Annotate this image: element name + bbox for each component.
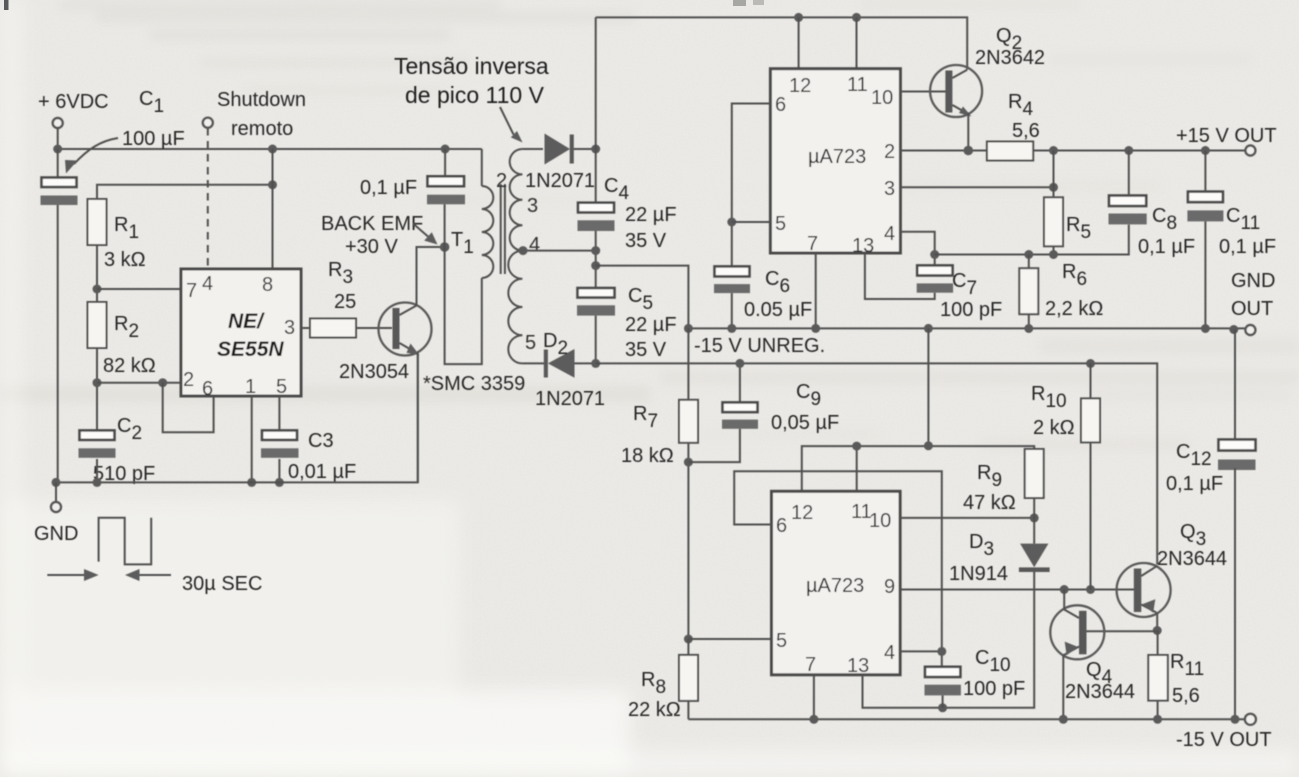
svg-text:2N3644: 2N3644	[1065, 681, 1135, 703]
svg-text:0,1 µF: 0,1 µF	[1166, 473, 1223, 495]
wire D1 to junction	[574, 148, 596, 150]
wire 0.1uF top lead	[444, 149, 446, 176]
svg-text:5,6: 5,6	[1012, 120, 1040, 142]
svg-text:-15 V OUT: -15 V OUT	[1176, 729, 1272, 751]
svg-text:2N3644: 2N3644	[1157, 548, 1227, 570]
diode D1 1N2071	[545, 134, 574, 165]
node junction pin7/rail	[809, 715, 818, 724]
op-amp U3 uA723 box	[772, 491, 901, 675]
node junction rail/0.1uF	[441, 145, 450, 154]
capacitor C11	[1187, 192, 1223, 222]
node junction pin11/rail	[852, 442, 861, 451]
svg-text:5: 5	[525, 332, 536, 354]
wire C9 bottom lead	[688, 429, 740, 462]
svg-text:82 kΩ: 82 kΩ	[103, 355, 156, 377]
transformer T1 secondary upper winding	[510, 149, 523, 251]
resistor R6	[1019, 255, 1038, 329]
node junction C12/rail	[1231, 715, 1240, 724]
wire IC2 pin12	[798, 17, 800, 68]
transistor Q4 2N3644	[1050, 605, 1104, 659]
node junction C11/GND rail	[1201, 324, 1210, 333]
svg-text:0,05 µF: 0,05 µF	[771, 412, 839, 434]
svg-text:4: 4	[884, 642, 895, 664]
node GND OUT terminal	[1245, 325, 1255, 335]
resistor R10	[1081, 398, 1100, 442]
svg-text:7: 7	[805, 654, 816, 676]
node junction C12/GND rail	[1229, 325, 1238, 334]
wire IC3 pin11	[856, 446, 858, 491]
node junction Q4 collector	[1060, 585, 1069, 594]
node junction C1/GND	[52, 478, 61, 487]
svg-text:2N3054: 2N3054	[339, 361, 409, 383]
transistor Q1 2N3054	[379, 303, 432, 356]
svg-text:Shutdown: Shutdown	[217, 89, 306, 111]
wire R2 to C2	[96, 348, 98, 430]
transformer T1 secondary lower winding	[508, 251, 522, 364]
node junction collector/back-emf	[440, 242, 450, 252]
wire C2 bottom	[96, 459, 98, 482]
op-amp U1 NE/SE55N box	[181, 269, 301, 396]
wire secondary pin5 to D2	[522, 362, 544, 364]
svg-text:7: 7	[186, 280, 197, 302]
wire C12 leads	[1234, 330, 1236, 720]
wire D2 to junction	[575, 362, 596, 364]
svg-text:2: 2	[884, 141, 895, 163]
capacitor C12	[1218, 440, 1256, 471]
capacitor C4	[578, 203, 615, 231]
svg-text:6: 6	[202, 378, 213, 400]
resistor R2	[88, 302, 107, 348]
wire C11 leads	[1204, 151, 1206, 329]
node junction gnd/IC3 riser	[924, 324, 933, 333]
svg-text:3: 3	[884, 178, 895, 200]
wire IC2 pin3	[901, 186, 1054, 188]
wire R8 leads	[687, 639, 689, 719]
node junction tap4 winding	[519, 246, 528, 255]
wire arrow left of pulse	[47, 574, 88, 576]
wire IC2 pin5	[732, 221, 771, 223]
wire R7 bottom to pin5 riser	[687, 443, 689, 639]
node junction D2/C5/-15unreg	[591, 359, 600, 368]
svg-text:GND: GND	[1231, 270, 1275, 292]
wire C6 bottom	[731, 293, 733, 328]
wire IC3 pin10	[900, 517, 1034, 519]
svg-text:GND: GND	[34, 523, 78, 545]
node junction pin5	[684, 635, 693, 644]
wire secondary pin2 to D1	[522, 148, 543, 150]
node junction +6V/C1	[53, 145, 62, 154]
wire C1 top lead	[57, 149, 59, 177]
waveform pulse	[99, 518, 152, 565]
svg-text:2 kΩ: 2 kΩ	[1033, 417, 1075, 439]
capacitor C9	[722, 402, 758, 428]
wire R11 bottom lead	[1157, 701, 1159, 720]
transformer core lines	[501, 184, 505, 274]
svg-text:3: 3	[527, 195, 538, 217]
resistor R4	[987, 142, 1033, 161]
wire tap4	[522, 250, 595, 252]
svg-text:22 µF: 22 µF	[625, 204, 677, 226]
wire R5 top lead	[1053, 151, 1055, 198]
svg-text:1N2071: 1N2071	[525, 170, 595, 192]
capacitor C5	[577, 288, 615, 316]
svg-text:0.05 µF: 0.05 µF	[744, 299, 812, 321]
wire -15V bottom rail	[688, 718, 1245, 720]
wire R3 to Q1 base	[356, 327, 392, 329]
svg-text:35 V: 35 V	[625, 339, 667, 361]
wire top-left +6V rail	[58, 148, 482, 150]
wire IC2 pin4	[901, 232, 935, 266]
wire IC2 pin7 down	[815, 253, 817, 328]
wire back-emf arrow	[413, 224, 428, 237]
node junction pin4/C7/R6 line	[930, 250, 939, 259]
node +15V OUT terminal	[1245, 146, 1255, 156]
node junction gnd-feed	[591, 261, 600, 270]
wire IC2 pin6 loop	[732, 104, 771, 267]
capacitor C1	[41, 178, 78, 206]
wire terminal stub	[57, 128, 59, 149]
svg-text:de pico 110 V: de pico 110 V	[405, 82, 545, 108]
wire IC2 pin2	[901, 150, 987, 152]
wire pin2	[97, 382, 181, 384]
svg-text:µA723: µA723	[806, 575, 864, 597]
wire shutdown dashed	[207, 128, 209, 269]
wire pin1 down	[251, 396, 253, 482]
wire R1-R2	[96, 245, 98, 302]
wire R11 top lead	[1157, 631, 1159, 656]
wire Q1 emitter down	[417, 353, 419, 483]
op-amp U2 uA723 box	[770, 69, 900, 253]
wire leader arrow to C1	[74, 138, 118, 164]
wire IC3 pin4	[900, 650, 942, 652]
wire top rail riser	[595, 17, 597, 149]
svg-text:12: 12	[791, 502, 813, 524]
svg-text:Tensão inversa: Tensão inversa	[394, 53, 549, 79]
svg-text:3: 3	[284, 317, 295, 339]
svg-text:5: 5	[776, 630, 787, 652]
wire Q4 collector up	[1063, 590, 1065, 610]
wire pin5 down to C3	[278, 396, 280, 430]
svg-text:2N3642: 2N3642	[975, 47, 1045, 69]
transformer T1 primary winding	[482, 149, 494, 278]
wire C8 top lead	[1128, 151, 1130, 196]
node junction C2/GND	[93, 478, 102, 487]
svg-text:10: 10	[871, 87, 893, 109]
wire second rail to R1	[97, 185, 273, 199]
svg-text:OUT: OUT	[1231, 298, 1273, 320]
wire IC2 pin11	[856, 17, 858, 68]
svg-text:+15 V OUT: +15 V OUT	[1176, 125, 1277, 147]
svg-text:10: 10	[869, 510, 891, 532]
node junction Q4 emitter/rail	[1059, 715, 1068, 724]
svg-text:12: 12	[789, 75, 811, 97]
wire IC3 pin6 loop	[734, 471, 942, 667]
resistor R8	[679, 655, 698, 701]
node junction R10 top	[1086, 359, 1095, 368]
wire leader arrow to D1	[500, 107, 514, 135]
transistor Q2 2N3642	[930, 65, 982, 117]
faint scan smudges	[0, 0, 1299, 451]
svg-text:0,1 µF: 0,1 µF	[1138, 236, 1195, 258]
svg-text:11: 11	[847, 74, 868, 96]
capacitor C10	[925, 667, 961, 696]
transistor Q3 2N3644	[1117, 563, 1171, 617]
wire R10 bottom lead	[1090, 442, 1092, 589]
wire GND rail	[56, 354, 418, 482]
wire IC3 pin9	[900, 589, 1134, 591]
wire IC3 pin7 down	[813, 675, 815, 720]
svg-text:1N914: 1N914	[949, 563, 1008, 585]
node junction Q3/R11/Q4 base	[1153, 626, 1162, 635]
wire GND terminal stub	[55, 482, 57, 502]
wire R10 top lead	[1090, 364, 1092, 399]
svg-text:22 kΩ: 22 kΩ	[628, 699, 681, 721]
svg-text:remoto: remoto	[231, 118, 293, 140]
node junction R2/pin2	[93, 378, 102, 387]
wire IC3 pin5	[688, 638, 771, 640]
svg-text:5: 5	[775, 213, 786, 235]
node +6VDC terminal	[53, 118, 63, 128]
node junction pin7/GND rail	[811, 324, 820, 333]
node junction R6 top	[1024, 250, 1033, 259]
wire C3 bottom	[278, 459, 280, 482]
svg-text:7: 7	[807, 233, 818, 255]
node junction pin2/Q2	[964, 146, 974, 156]
node junction R4/R5	[1049, 146, 1058, 155]
node junction C3/GND	[275, 478, 284, 487]
node junction R6/GND rail	[1024, 324, 1033, 333]
wire Q1 collector up	[417, 247, 445, 306]
capacitor C3	[261, 430, 299, 457]
wire C4 bottom to C5 top	[595, 231, 597, 288]
node junction R1/R2/pin7	[93, 285, 102, 294]
wire pin6 loop	[163, 383, 214, 433]
wire D3 bottom to pin13 line	[863, 572, 1035, 708]
resistor R3	[310, 319, 356, 338]
svg-text:30µ SEC: 30µ SEC	[182, 573, 262, 595]
svg-text:1N2071: 1N2071	[535, 388, 605, 410]
svg-text:4: 4	[202, 273, 213, 295]
node GND terminal	[51, 502, 61, 512]
svg-text:13: 13	[847, 655, 869, 677]
node junction pin6 loop on pin2 wire	[158, 378, 167, 387]
wire Q3 emitter down	[1156, 613, 1158, 631]
svg-text:0,01 µF: 0,01 µF	[288, 461, 356, 483]
diode D2 1N2071	[544, 349, 575, 378]
svg-text:4: 4	[884, 223, 895, 245]
svg-text:C3: C3	[308, 430, 334, 452]
node junction pin5/pin6	[727, 218, 736, 227]
svg-text:1: 1	[245, 376, 256, 398]
svg-text:+ 6VDC: + 6VDC	[38, 91, 109, 113]
svg-text:2: 2	[183, 369, 194, 391]
capacitor C6	[714, 266, 750, 293]
node junction R10 bottom	[1086, 585, 1095, 594]
svg-text:4: 4	[529, 234, 540, 256]
wire R7 top lead	[687, 328, 689, 399]
wire Q4 base	[1086, 630, 1157, 632]
node junction rail/C8	[1124, 146, 1133, 155]
resistor R1	[88, 199, 107, 245]
node junction pin4/pin6/C10	[937, 647, 946, 656]
svg-text:18 kΩ: 18 kΩ	[621, 445, 674, 467]
node junction rail/C11	[1201, 146, 1210, 155]
node junction tap4/C4	[591, 246, 600, 255]
node junction pin1/GND	[247, 478, 256, 487]
wire C4 top lead	[595, 149, 597, 203]
resistor R7	[679, 400, 698, 443]
svg-text:5: 5	[276, 376, 287, 398]
node junction R7/C9	[684, 458, 693, 467]
svg-text:13: 13	[852, 235, 874, 257]
node junction riser/rail	[924, 441, 933, 450]
resistor R11	[1148, 655, 1168, 701]
wire IC3 pins 12/11 rail riser	[927, 328, 929, 445]
svg-text:SE55N: SE55N	[217, 338, 284, 361]
svg-text:100 µF: 100 µF	[122, 128, 185, 150]
node junction R11/rail	[1153, 715, 1162, 724]
svg-text:-15 V UNREG.: -15 V UNREG.	[694, 335, 825, 357]
svg-text:0,1 µF: 0,1 µF	[360, 177, 417, 199]
wire C10 bottom lead	[942, 695, 944, 707]
node junction second rail/pin8	[268, 180, 277, 189]
node junction pin11/top rail	[852, 13, 861, 22]
node -15V OUT terminal	[1245, 714, 1256, 725]
node junction pin3/R5	[1049, 183, 1058, 192]
wire Q4 emitter down	[1062, 656, 1064, 720]
wire top rail	[596, 17, 968, 69]
wire pin3 to R3	[301, 327, 310, 329]
svg-text:BACK EMF: BACK EMF	[321, 213, 423, 235]
wire arrow right of pulse	[137, 574, 171, 576]
wire pin7	[97, 288, 181, 290]
svg-text:100 pF: 100 pF	[940, 299, 1002, 321]
wire Q2 emitter down	[967, 113, 969, 151]
wire R5 bottom lead	[1053, 246, 1055, 254]
svg-text:9: 9	[884, 576, 895, 598]
svg-text:22 µF: 22 µF	[625, 314, 677, 336]
node junction D1/C4/rail-up	[591, 145, 600, 154]
wire pin4 node line to C8	[935, 225, 1129, 255]
node junction rail/pin8 drop	[268, 145, 277, 154]
svg-text:2: 2	[496, 170, 507, 192]
capacitor C8	[1109, 196, 1147, 225]
svg-text:0,1 µF: 0,1 µF	[1219, 236, 1276, 258]
wire IC3 pin12	[802, 446, 1034, 491]
svg-text:*SMC 3359: *SMC 3359	[423, 373, 525, 395]
wire IC2 pin10 to Q2 base	[901, 91, 947, 93]
wire +15V rail	[1033, 150, 1245, 152]
svg-text:3 kΩ: 3 kΩ	[104, 249, 146, 271]
svg-text:NE/: NE/	[228, 310, 265, 333]
wire D3 top lead	[1033, 518, 1035, 544]
svg-text:25: 25	[334, 291, 356, 313]
wire C7 bottom to pin13	[865, 253, 935, 299]
node Shutdown terminal	[203, 118, 213, 128]
wire gnd feed to right	[596, 266, 689, 329]
svg-text:5,6: 5,6	[1172, 685, 1200, 707]
node junction C9/-15unreg	[735, 359, 744, 368]
svg-text:6: 6	[775, 94, 786, 116]
wire -15V UNREG rail	[596, 363, 1157, 564]
wire C9 top lead	[739, 363, 741, 402]
node junction C10 bottom	[938, 703, 947, 712]
svg-text:47 kΩ: 47 kΩ	[963, 492, 1016, 514]
svg-text:35 V: 35 V	[625, 230, 667, 252]
node junction R5 bottom	[1049, 250, 1058, 259]
svg-text:µA723: µA723	[808, 146, 866, 168]
node junction R9/D3/pin10	[1030, 513, 1039, 522]
diode D3 1N914	[1019, 544, 1050, 572]
page-edge artifact top-left	[4, 0, 9, 10]
svg-text:+30 V: +30 V	[345, 236, 398, 258]
wire 0.1uF bottom / primary bottom loop	[445, 204, 482, 364]
capacitor 0.1uF snubber	[427, 176, 465, 204]
svg-text:6: 6	[776, 515, 787, 537]
resistor R9	[1025, 449, 1044, 498]
svg-text:8: 8	[262, 274, 273, 296]
node junction pin12/top rail	[794, 13, 803, 22]
wire GND rail	[688, 327, 1245, 329]
capacitor C7	[917, 265, 953, 292]
wire pin8 drop	[272, 149, 274, 269]
wire C5 bottom	[595, 316, 597, 364]
svg-text:2,2 kΩ: 2,2 kΩ	[1045, 298, 1103, 320]
capacitor C2	[79, 430, 116, 457]
resistor R5	[1044, 197, 1063, 246]
node junction C6/GND rail	[727, 324, 736, 333]
wire R9 bottom lead	[1033, 498, 1035, 518]
wire C1 bottom lead to GND rail	[57, 205, 59, 482]
svg-text:100 pF: 100 pF	[963, 678, 1025, 700]
node junction R7/GND rail	[684, 324, 693, 333]
